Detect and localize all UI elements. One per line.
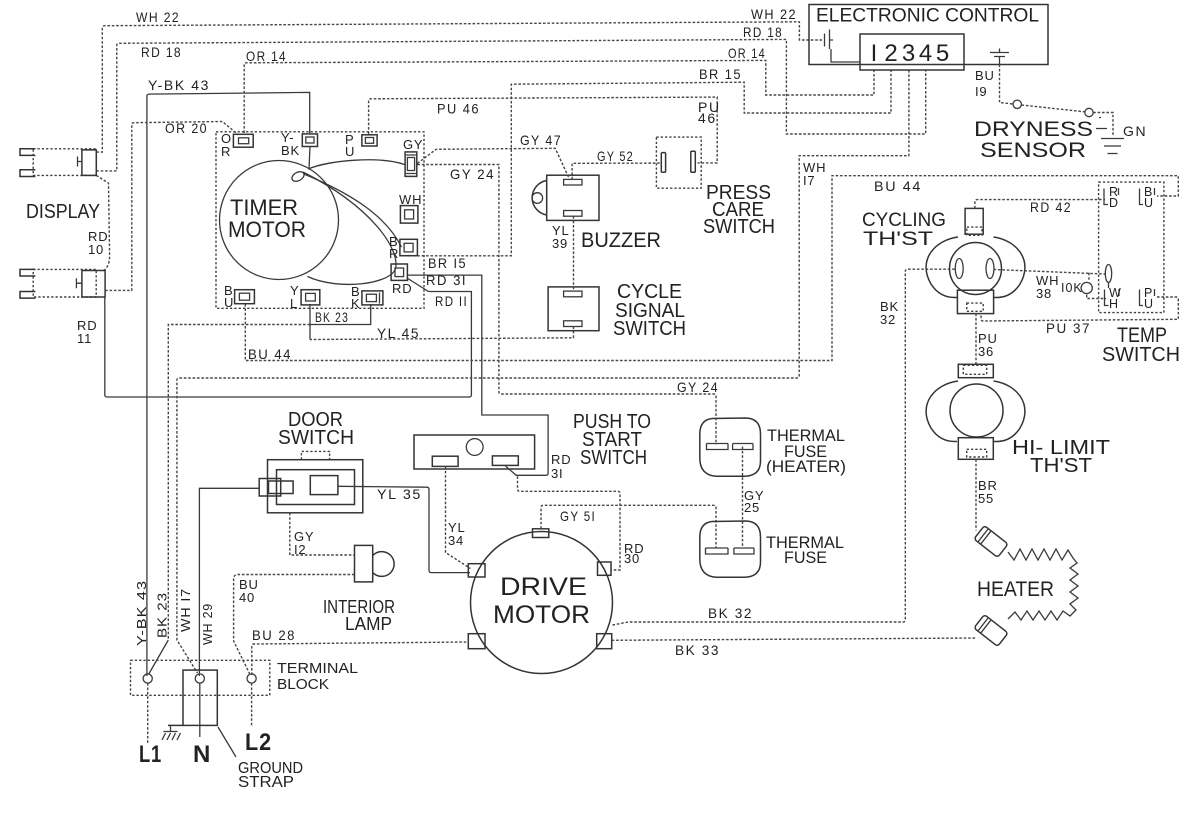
svg-text:WH I7: WH I7 — [178, 588, 193, 632]
timer terminal RD — [391, 264, 412, 296]
svg-text:11: 11 — [77, 331, 92, 346]
hi-limit circle — [950, 384, 1003, 437]
svg-text:RD 42: RD 42 — [1030, 199, 1072, 215]
svg-text:YL 35: YL 35 — [377, 486, 422, 502]
timer cam loop — [303, 172, 396, 284]
svg-text:N: N — [193, 741, 211, 768]
door switch right contact — [310, 476, 338, 495]
capacitor lead to connector — [831, 49, 860, 62]
motor terminal left-top — [468, 564, 485, 577]
dryness sensor arm — [1022, 105, 1085, 112]
wire YL45 run — [310, 327, 574, 340]
temp switch box — [1099, 182, 1164, 313]
svg-text:U: U — [345, 144, 355, 159]
svg-text:34: 34 — [448, 533, 464, 548]
terminal L1 circle — [143, 674, 152, 683]
wire GY24 — [417, 165, 716, 445]
svg-text:TH'ST: TH'ST — [1030, 455, 1092, 477]
wire BK32 — [613, 269, 956, 625]
door switch inner box — [277, 470, 355, 505]
hi-limit bottom terminal — [958, 438, 993, 460]
wire WH17 — [177, 70, 909, 673]
heater top crimp — [974, 526, 1008, 558]
svg-text:TERMINAL: TERMINAL — [277, 661, 358, 677]
timer terminal Y-BK — [281, 130, 318, 158]
svg-text:I7: I7 — [803, 173, 815, 188]
svg-text:RD II: RD II — [435, 293, 468, 309]
svg-text:2: 2 — [884, 40, 897, 67]
svg-text:RD 18: RD 18 — [141, 44, 182, 60]
electronic control connector box — [860, 34, 964, 70]
svg-text:DRIVE: DRIVE — [500, 573, 587, 601]
svg-text:4: 4 — [919, 40, 932, 67]
svg-text:ELECTRONIC CONTROL: ELECTRONIC CONTROL — [816, 6, 1039, 27]
svg-text:BK 33: BK 33 — [675, 642, 720, 658]
svg-text:WH 29: WH 29 — [200, 603, 215, 645]
wire GN to ground — [1093, 113, 1113, 137]
push to start right contact — [492, 456, 518, 466]
svg-text:30: 30 — [624, 551, 640, 566]
buzzer mounting ear — [532, 181, 547, 216]
svg-text:GY 5I: GY 5I — [560, 508, 596, 524]
cycling thermostat bottom terminal — [957, 290, 993, 313]
L2 lead — [251, 683, 253, 727]
display top connector body — [20, 149, 96, 177]
press care right contact — [691, 151, 696, 172]
svg-text:SWITCH: SWITCH — [1102, 344, 1180, 366]
svg-text:L: L — [290, 296, 298, 311]
timer terminal B R — [389, 234, 417, 261]
svg-text:U: U — [1144, 196, 1154, 210]
temp switch 10K resistor — [1081, 282, 1092, 293]
timer cam curve to BR — [304, 174, 402, 247]
svg-text:R: R — [221, 144, 231, 159]
svg-text:MOTOR: MOTOR — [493, 601, 590, 629]
interior lamp body — [355, 545, 373, 582]
heater bottom crimp — [974, 615, 1008, 647]
svg-text:55: 55 — [978, 491, 994, 506]
timer Y-BK stub — [309, 147, 310, 170]
svg-text:RD 18: RD 18 — [743, 24, 783, 40]
wire BU28 — [252, 642, 468, 675]
dryness sensor contact 2 — [1085, 108, 1093, 116]
motor terminal right-top — [598, 562, 612, 575]
svg-text:GY 24: GY 24 — [677, 379, 719, 395]
svg-text:Y-BK 43: Y-BK 43 — [148, 77, 210, 93]
wire RD30 — [518, 476, 621, 570]
svg-text:I2: I2 — [294, 542, 306, 557]
cycling thermostat circle — [950, 243, 1002, 295]
terminal N circle — [195, 674, 204, 683]
wire BU19 — [1000, 65, 1013, 105]
timer cam curve to GY — [308, 160, 405, 169]
svg-text:D: D — [1109, 196, 1119, 210]
push to start switch box — [414, 435, 535, 469]
svg-text:SWITCH: SWITCH — [580, 447, 647, 469]
temp switch terminal W H — [1105, 289, 1120, 306]
svg-text:OR 14: OR 14 — [728, 45, 766, 61]
svg-text:H: H — [1109, 297, 1119, 311]
svg-text:3I: 3I — [551, 466, 563, 481]
svg-text:BU 44: BU 44 — [248, 346, 292, 362]
sensor bar marks — [1096, 118, 1107, 129]
cycling thermostat right slot — [986, 259, 994, 279]
thermal fuse right bar — [734, 548, 754, 554]
svg-text:GN: GN — [1123, 123, 1147, 139]
svg-text:I9: I9 — [975, 84, 987, 99]
svg-text:BR 15: BR 15 — [699, 66, 742, 82]
wire RD18 — [96, 39, 925, 171]
wire BK33 — [612, 638, 976, 640]
cycle signal bottom terminal — [564, 321, 582, 327]
svg-text:BUZZER: BUZZER — [581, 229, 661, 252]
thermal fuse (heater) body — [700, 418, 761, 476]
hi-limit top terminal — [958, 364, 993, 377]
svg-text:GY 52: GY 52 — [597, 148, 634, 164]
svg-text:10: 10 — [88, 242, 104, 257]
svg-text:5: 5 — [936, 40, 949, 67]
svg-text:38: 38 — [1036, 286, 1052, 301]
svg-text:L1: L1 — [139, 741, 162, 768]
N lead — [199, 683, 201, 737]
wire BK23 jumper and down-run — [310, 304, 371, 325]
svg-text:WH 22: WH 22 — [751, 6, 797, 22]
chassis ground symbol — [162, 732, 181, 741]
cycling thermostat body — [926, 237, 1025, 298]
wire RD11 — [105, 278, 472, 397]
wire YL35 — [338, 486, 470, 572]
wire GY47 — [417, 148, 568, 177]
buzzer top terminal — [564, 179, 582, 185]
dryness sensor contact 1 — [1013, 100, 1021, 108]
wire BR55 — [975, 459, 977, 530]
wire PU37 — [981, 297, 1178, 321]
svg-text:RD: RD — [551, 452, 571, 467]
thermal fuse (heater) right bar — [733, 444, 753, 450]
svg-text:I0K: I0K — [1061, 281, 1083, 295]
svg-text:GY 47: GY 47 — [520, 132, 562, 148]
temp switch contact slot — [1105, 265, 1111, 283]
svg-text:U: U — [1144, 297, 1154, 311]
svg-text:CYCLING: CYCLING — [862, 210, 946, 231]
svg-text:PU 46: PU 46 — [437, 101, 480, 117]
svg-text:LAMP: LAMP — [345, 614, 392, 634]
cycle signal switch box — [548, 287, 599, 331]
svg-text:R: R — [389, 246, 399, 261]
motor terminal top — [533, 529, 549, 538]
svg-text:BK 23: BK 23 — [315, 309, 349, 325]
svg-text:46: 46 — [698, 110, 717, 126]
buzzer body — [547, 175, 599, 220]
svg-text:HEATER: HEATER — [977, 578, 1054, 601]
svg-text:BLOCK: BLOCK — [277, 677, 329, 693]
terminal L2 circle — [247, 674, 256, 683]
svg-text:PU 37: PU 37 — [1046, 320, 1091, 336]
wire YL45 with timer YL stub — [309, 304, 311, 340]
wire GY12 — [290, 513, 355, 555]
motor terminal left-bottom — [468, 634, 485, 649]
wire GY51 — [541, 505, 716, 548]
wire GY25 — [742, 447, 744, 549]
wire OR20 — [105, 122, 238, 291]
svg-text:SWITCH: SWITCH — [613, 318, 686, 340]
buzzer ear hole — [532, 193, 543, 204]
svg-text:BU 28: BU 28 — [252, 627, 296, 643]
L1 lead — [147, 683, 149, 743]
wire YL34 — [446, 466, 471, 568]
ground strap bottom extension — [168, 724, 183, 726]
svg-text:K: K — [351, 296, 360, 311]
svg-text:GY 24: GY 24 — [450, 166, 495, 182]
svg-text:RD 3I: RD 3I — [426, 272, 467, 288]
svg-text:RD: RD — [392, 281, 412, 296]
thermal fuse left bar — [706, 548, 729, 554]
wire WH38 — [994, 270, 1105, 275]
svg-text:39: 39 — [552, 236, 568, 251]
svg-text:BK 32: BK 32 — [708, 605, 753, 621]
door switch top tab — [301, 451, 329, 459]
svg-text:MOTOR: MOTOR — [228, 217, 306, 242]
buzzer bottom terminal — [564, 211, 582, 217]
svg-text:SENSOR: SENSOR — [980, 139, 1086, 162]
svg-text:BU 44: BU 44 — [874, 178, 922, 194]
svg-text:YL 45: YL 45 — [377, 325, 420, 341]
heater element zigzag — [1008, 549, 1078, 620]
svg-text:40: 40 — [239, 590, 255, 605]
timer motor circle — [220, 161, 339, 280]
svg-text:BR I5: BR I5 — [428, 255, 467, 271]
svg-text:25: 25 — [744, 500, 760, 515]
svg-text:BK 23: BK 23 — [155, 592, 170, 638]
svg-text:DRYNESS: DRYNESS — [974, 118, 1093, 141]
hi-limit body — [926, 381, 1025, 442]
wire WH29 — [199, 488, 259, 676]
wire BR15 — [404, 70, 891, 256]
wire YL39 — [573, 216, 575, 290]
svg-text:WH 22: WH 22 — [136, 9, 180, 25]
svg-text:FUSE: FUSE — [784, 549, 827, 567]
cycle signal top terminal — [564, 291, 582, 297]
timer cam oval — [290, 170, 305, 184]
temp switch terminal R D — [1104, 188, 1119, 205]
svg-text:SWITCH: SWITCH — [703, 216, 775, 238]
timer box — [216, 132, 424, 308]
cycling thermostat top terminal — [965, 208, 983, 234]
svg-text:GY: GY — [403, 137, 423, 152]
svg-text:36: 36 — [978, 344, 994, 359]
svg-text:STRAP: STRAP — [238, 774, 294, 791]
timer terminal B K — [351, 284, 383, 311]
ground strap pointer — [218, 727, 236, 757]
svg-text:(HEATER): (HEATER) — [766, 458, 846, 476]
thermal fuse body — [700, 521, 761, 577]
svg-text:Y-BK 43: Y-BK 43 — [134, 580, 149, 646]
timer terminal Y L — [290, 283, 320, 311]
terminal block box — [131, 660, 270, 695]
chassis ground stub — [170, 725, 172, 731]
svg-text:3: 3 — [902, 40, 915, 67]
timer terminal B U — [224, 283, 254, 310]
svg-text:SWITCH: SWITCH — [278, 427, 354, 449]
alarm symbol on control box — [990, 49, 1009, 65]
svg-text:WH: WH — [399, 192, 422, 207]
wire OR14 — [244, 60, 874, 133]
ground strap rect — [183, 670, 217, 725]
capacitor inside electronic control — [825, 30, 834, 50]
interior lamp bulb — [373, 552, 394, 577]
svg-text:BU: BU — [975, 68, 995, 83]
svg-text:BK: BK — [281, 143, 300, 158]
ground symbol — [1101, 139, 1124, 154]
wire WH22 — [96, 22, 822, 152]
wire Y-BK43 — [147, 92, 310, 676]
press care switch box — [656, 137, 701, 188]
press care left contact — [661, 153, 665, 173]
display bottom connector body — [20, 269, 105, 298]
svg-text:OR 20: OR 20 — [165, 120, 208, 136]
svg-text:U: U — [224, 295, 234, 310]
timer terminal WH — [399, 192, 422, 223]
timer terminal P U — [345, 132, 377, 159]
svg-text:OR 14: OR 14 — [246, 48, 287, 64]
push to start button — [466, 439, 483, 456]
motor terminal right-bottom — [597, 634, 612, 649]
cycling thermostat left slot — [955, 259, 963, 279]
door switch left plug — [259, 479, 281, 497]
wire RD31 — [407, 275, 548, 475]
svg-text:TH'ST: TH'ST — [863, 229, 934, 250]
svg-text:DISPLAY: DISPLAY — [26, 201, 100, 223]
drive motor circle — [471, 532, 613, 674]
svg-text:32: 32 — [880, 312, 896, 327]
wire PU46 — [369, 97, 718, 163]
svg-text:L2: L2 — [245, 729, 272, 756]
wire BU40 — [234, 575, 355, 675]
wire RD10 — [96, 175, 109, 271]
door switch outer box — [268, 460, 363, 513]
push to start left contact — [432, 456, 458, 466]
timer terminal GY — [403, 137, 423, 176]
temp switch terminal B U — [1140, 188, 1155, 205]
wire PU36 — [975, 314, 977, 365]
timer terminal O R — [221, 131, 253, 159]
svg-text:I: I — [871, 40, 878, 67]
electronic control outer box — [809, 5, 1048, 65]
temp switch terminal P U — [1140, 289, 1155, 306]
thermal fuse (heater) left bar — [707, 444, 729, 450]
wire BU44 — [245, 176, 1178, 361]
wire GY52 — [572, 163, 661, 179]
wire RD42 — [975, 200, 1105, 209]
